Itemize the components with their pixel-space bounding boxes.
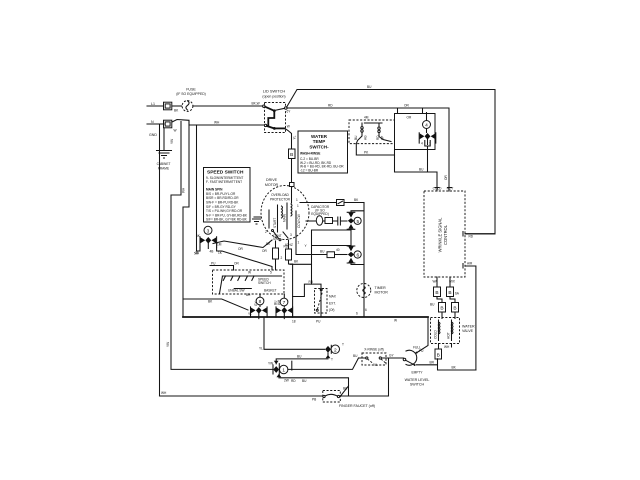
- svg-text:YL: YL: [248, 312, 252, 316]
- svg-text:F- FAST/INTERMITTENT: F- FAST/INTERMITTENT: [206, 180, 242, 184]
- svg-text:2: 2: [334, 347, 337, 353]
- svg-text:WH: WH: [182, 187, 186, 193]
- svg-text:TEMP: TEMP: [313, 139, 326, 144]
- svg-text:PU: PU: [316, 320, 321, 324]
- svg-text:FINGER FAUCET (off): FINGER FAUCET (off): [339, 404, 375, 408]
- svg-text:4B: 4B: [210, 250, 214, 254]
- svg-text:18: 18: [292, 320, 296, 324]
- svg-text:BK: BK: [208, 300, 213, 304]
- svg-text:BR: BR: [246, 293, 251, 297]
- svg-text:FRAME: FRAME: [158, 167, 169, 171]
- svg-text:EMPTY: EMPTY: [412, 371, 424, 375]
- svg-text:4: 4: [425, 123, 428, 129]
- svg-text:YL: YL: [292, 135, 296, 139]
- svg-text:6: 6: [365, 308, 367, 312]
- svg-text:X-RINSE (off): X-RINSE (off): [364, 348, 383, 352]
- svg-text:VL: VL: [374, 363, 378, 367]
- svg-text:W: W: [394, 319, 397, 323]
- svg-text:3: 3: [207, 228, 210, 234]
- svg-text:6: 6: [356, 312, 358, 316]
- svg-text:MAX: MAX: [329, 295, 337, 299]
- svg-text:PROTECTOR: PROTECTOR: [270, 197, 291, 201]
- svg-text:6Y: 6Y: [287, 110, 292, 114]
- svg-text:WH: WH: [444, 345, 450, 349]
- svg-text:SWITCH-: SWITCH-: [309, 145, 329, 150]
- svg-text:BU: BU: [354, 135, 358, 140]
- svg-text:DRIVE: DRIVE: [266, 178, 278, 182]
- svg-text:RD: RD: [291, 379, 296, 383]
- svg-text:-12 = BU-BR: -12 = BU-BR: [300, 168, 319, 172]
- svg-text:RD: RD: [328, 104, 333, 108]
- svg-text:7: 7: [283, 300, 286, 306]
- svg-text:B: B: [453, 306, 456, 312]
- svg-text:BU: BU: [353, 354, 358, 358]
- svg-text:OR: OR: [238, 247, 243, 251]
- svg-text:MAIN SPIN: MAIN SPIN: [206, 188, 223, 192]
- svg-text:WH: WH: [277, 299, 281, 305]
- svg-text:2W: 2W: [284, 379, 289, 383]
- svg-text:WATER: WATER: [311, 134, 328, 139]
- svg-text:RD: RD: [284, 245, 289, 249]
- svg-text:GY: GY: [389, 354, 394, 358]
- svg-text:GND: GND: [149, 133, 157, 137]
- svg-text:BK: BK: [354, 198, 359, 202]
- svg-text:3: 3: [290, 233, 292, 237]
- svg-text:AIR: AIR: [467, 262, 473, 266]
- svg-text:TIMER: TIMER: [375, 286, 387, 290]
- svg-text:S/F= BR-BK, GY=BK RD-BK: S/F= BR-BK, GY=BK RD-BK: [206, 218, 248, 222]
- svg-text:W: W: [287, 125, 290, 129]
- svg-text:UNBAL SW: UNBAL SW: [228, 289, 245, 293]
- svg-text:BK: BK: [174, 109, 179, 113]
- svg-text:1K: 1K: [218, 251, 223, 255]
- svg-text:PU: PU: [419, 349, 424, 353]
- svg-text:PB: PB: [312, 398, 316, 402]
- svg-text:LID SWITCH: LID SWITCH: [263, 89, 286, 94]
- svg-text:SP: SP: [381, 136, 385, 140]
- svg-text:8: 8: [259, 299, 262, 305]
- svg-text:BK: BK: [266, 242, 271, 246]
- svg-text:4: 4: [421, 142, 423, 146]
- svg-text:OR: OR: [404, 104, 409, 108]
- svg-text:YW: YW: [268, 362, 273, 366]
- svg-text:WATER: WATER: [462, 325, 475, 329]
- svg-text:WASH-RINSE: WASH-RINSE: [300, 152, 320, 156]
- svg-text:L1: L1: [151, 102, 155, 106]
- svg-text:BK: BK: [294, 260, 299, 264]
- svg-text:6: 6: [356, 253, 359, 259]
- svg-text:PU: PU: [211, 262, 216, 266]
- svg-text:BU: BU: [367, 85, 372, 89]
- svg-text:BASKET: BASKET: [264, 289, 277, 293]
- svg-text:W: W: [174, 129, 177, 133]
- svg-text:OR: OR: [407, 116, 412, 120]
- svg-text:RD: RD: [309, 280, 314, 284]
- svg-text:HOT: HOT: [447, 332, 451, 339]
- svg-text:MIX: MIX: [449, 280, 456, 284]
- svg-text:MOTOR: MOTOR: [375, 291, 389, 295]
- svg-text:MAIN: MAIN: [283, 213, 287, 222]
- svg-text:T: T: [331, 358, 333, 362]
- svg-text:40: 40: [336, 248, 340, 252]
- svg-text:B: B: [435, 290, 438, 296]
- svg-text:5: 5: [270, 271, 272, 275]
- svg-text:FUSE: FUSE: [186, 88, 196, 92]
- svg-text:YW: YW: [170, 139, 174, 144]
- svg-text:WH: WH: [214, 121, 220, 125]
- svg-text:6A: 6A: [455, 292, 460, 296]
- svg-text:2: 2: [281, 256, 283, 260]
- svg-text:(open position): (open position): [262, 95, 285, 99]
- svg-text:BK,W: BK,W: [252, 102, 260, 106]
- svg-text:BU: BU: [419, 168, 424, 172]
- svg-text:5M: 5M: [194, 252, 199, 256]
- svg-text:(IF SO EQUIPPED): (IF SO EQUIPPED): [176, 92, 206, 96]
- svg-text:WRINKLE SIGNAL: WRINKLE SIGNAL: [438, 217, 443, 253]
- svg-text:YW: YW: [166, 342, 170, 347]
- svg-text:CCW CW: CCW CW: [297, 214, 301, 228]
- svg-text:SPEED SWITCH: SPEED SWITCH: [207, 170, 244, 176]
- svg-text:WH: WH: [161, 391, 167, 395]
- svg-text:WA: WA: [432, 280, 438, 284]
- svg-text:BR: BR: [430, 361, 435, 365]
- svg-text:OR: OR: [444, 175, 448, 180]
- svg-text:B: B: [448, 290, 451, 296]
- svg-text:5: 5: [356, 219, 359, 225]
- svg-text:BU: BU: [430, 303, 435, 307]
- svg-text:BU: BU: [297, 355, 302, 359]
- svg-text:2: 2: [265, 230, 267, 234]
- svg-text:B: B: [437, 353, 440, 359]
- svg-text:T: T: [342, 343, 344, 347]
- svg-text:COLD: COLD: [434, 329, 438, 339]
- svg-text:START: START: [273, 218, 277, 228]
- svg-text:SW: SW: [273, 237, 278, 241]
- svg-text:W: W: [248, 271, 251, 275]
- svg-text:1: 1: [296, 198, 298, 202]
- svg-text:YL: YL: [259, 347, 263, 351]
- svg-text:VALVE: VALVE: [462, 329, 474, 333]
- svg-text:N: N: [151, 120, 154, 124]
- svg-text:BU: BU: [320, 250, 325, 254]
- svg-text:B: B: [290, 152, 293, 158]
- svg-text:WATER LEVEL: WATER LEVEL: [405, 378, 430, 382]
- svg-text:RD: RD: [376, 135, 380, 140]
- svg-text:PK: PK: [364, 151, 369, 155]
- svg-text:1M: 1M: [217, 243, 222, 247]
- svg-text:AG: AG: [364, 135, 368, 140]
- svg-text:1: 1: [297, 204, 299, 208]
- svg-text:RD: RD: [469, 235, 474, 239]
- svg-text:1: 1: [298, 241, 300, 245]
- svg-text:EXT.: EXT.: [329, 302, 336, 306]
- svg-text:1: 1: [282, 368, 285, 374]
- svg-text:OR: OR: [234, 262, 239, 266]
- svg-text:OR: OR: [262, 249, 267, 253]
- svg-text:SWITCH: SWITCH: [410, 383, 425, 387]
- svg-text:CONTROL: CONTROL: [443, 224, 448, 245]
- svg-text:CABINET: CABINET: [157, 162, 171, 166]
- svg-text:(Of): (Of): [329, 308, 335, 312]
- svg-text:Y: Y: [305, 244, 308, 248]
- svg-text:4M: 4M: [364, 116, 369, 120]
- svg-text:BK: BK: [452, 366, 457, 370]
- svg-text:BU: BU: [302, 379, 307, 383]
- svg-text:MOTOR: MOTOR: [265, 183, 279, 187]
- svg-text:SWITCH: SWITCH: [258, 281, 271, 285]
- svg-text:B: B: [440, 306, 443, 312]
